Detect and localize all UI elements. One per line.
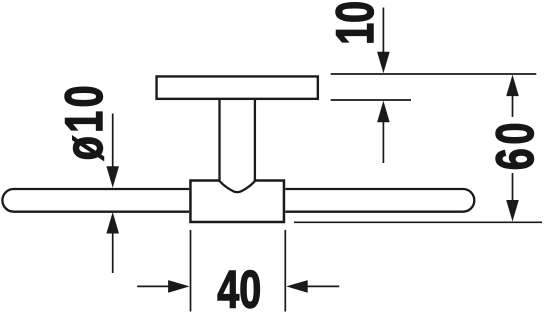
- extension line B (plate bottom): [331, 99, 411, 101]
- dim o10: arrow down: [106, 166, 119, 188]
- dim 10: lower shaft: [382, 121, 384, 163]
- dim 60: lower shaft: [512, 173, 514, 201]
- svg-text:60: 60: [485, 119, 544, 170]
- dim 60: arrow down: [506, 200, 519, 222]
- mount block fill (hides rod): [189, 179, 285, 223]
- dim o10: lower shaft: [112, 233, 114, 274]
- dim 60: arrow up: [506, 75, 519, 97]
- bar (rounded rod): [2, 189, 474, 212]
- dim 40: left ext: [190, 230, 192, 312]
- dim 10: arrow up: [377, 101, 390, 123]
- dim 40: left shaft: [137, 285, 169, 287]
- dim o10: upper shaft: [112, 114, 114, 169]
- dim 40: right ext: [284, 230, 286, 312]
- svg-text:40: 40: [217, 260, 261, 317]
- extension line A (plate top, shared w/ 60): [331, 73, 537, 75]
- dim 10: arrow down: [377, 52, 390, 74]
- mount block outline: [190, 181, 284, 222]
- wall plate: [157, 76, 318, 98]
- dim 60: upper shaft: [512, 95, 514, 117]
- svg-text:ø10: ø10: [54, 82, 113, 160]
- dim 40: arrow left: [286, 280, 308, 293]
- dim 10: upper shaft: [382, 8, 384, 54]
- stem with pointed tip: [220, 99, 255, 192]
- dim o10: arrow up: [106, 212, 119, 234]
- dim 40: arrow right: [168, 280, 190, 293]
- dim 40: right shaft: [307, 285, 340, 287]
- svg-text:10: 10: [325, 1, 384, 45]
- extension line bottom (block bottom, for 60): [294, 221, 542, 223]
